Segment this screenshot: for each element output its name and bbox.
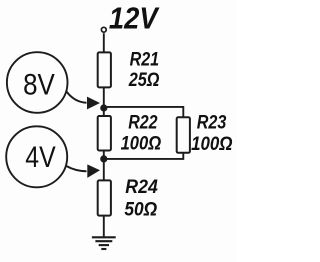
svg-text:50Ω: 50Ω	[124, 199, 157, 220]
svg-text:4V: 4V	[25, 141, 56, 174]
svg-text:8V: 8V	[23, 69, 55, 102]
svg-text:R24: R24	[125, 177, 158, 198]
svg-text:100Ω: 100Ω	[121, 134, 162, 155]
svg-text:100Ω: 100Ω	[191, 134, 233, 155]
svg-text:12V: 12V	[109, 1, 160, 36]
svg-text:R23: R23	[197, 113, 227, 134]
svg-text:R21: R21	[130, 50, 160, 71]
svg-text:25Ω: 25Ω	[128, 70, 160, 91]
svg-text:R22: R22	[128, 113, 158, 134]
